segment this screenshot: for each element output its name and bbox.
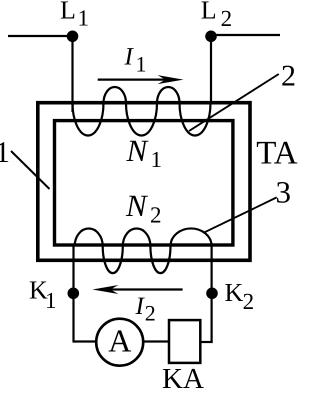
node K2 terminal dot [206,288,218,300]
ammeter A [96,319,143,366]
svg-text:L: L [201,0,217,25]
relay coil KA box [169,320,200,363]
label N2 [125,188,162,228]
primary winding N1 coil [73,87,211,135]
arrow I2 direction [92,285,182,294]
svg-text:N: N [126,133,150,168]
label 3 with leader [205,174,291,232]
arrow I1 direction [98,75,184,84]
wire K2 vertical [211,244,213,342]
svg-text:2: 2 [150,203,162,228]
svg-text:1: 1 [78,5,90,30]
svg-text:1: 1 [151,147,163,172]
label 2 with leader [189,59,296,131]
wire left supply lead [8,35,73,37]
core outer rectangle (1) [38,103,250,261]
svg-text:1: 1 [136,51,147,76]
svg-text:1: 1 [0,136,10,169]
wire relay to K2 branch [200,341,212,343]
svg-text:L: L [60,0,76,24]
svg-text:2: 2 [243,289,255,314]
wire bottom left to ammeter [73,340,97,342]
label K2 [225,278,255,314]
wire L2 down to primary winding [210,36,212,104]
svg-text:K: K [225,278,244,307]
svg-text:1: 1 [45,288,57,313]
wire ammeter to relay [143,340,169,342]
svg-text:2: 2 [145,301,156,326]
svg-text:N: N [125,188,149,223]
label L2 [201,0,232,31]
wire L1 down to primary winding [71,36,73,112]
svg-text:TA: TA [256,136,298,172]
node L2 terminal dot [205,31,217,43]
label I1 current [124,43,147,76]
label L1 [60,0,89,30]
label K1 [29,276,57,313]
core inner rectangle [55,121,233,245]
node L1 terminal dot [67,31,79,43]
svg-text:A: A [108,323,131,359]
node K1 terminal dot [68,288,80,300]
secondary winding N2 coil [75,228,212,273]
svg-text:KA: KA [162,363,204,391]
svg-text:3: 3 [276,174,292,209]
label 1 with leader [0,136,50,189]
wire right supply lead [211,34,280,36]
wire K1 vertical [72,246,74,342]
label N1 [126,133,163,172]
label I2 current [135,293,156,326]
svg-text:2: 2 [281,59,296,92]
svg-text:2: 2 [221,6,233,31]
